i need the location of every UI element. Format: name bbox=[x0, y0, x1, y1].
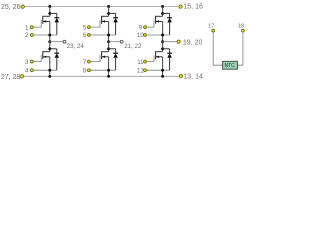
svg-text:27, 28: 27, 28 bbox=[1, 74, 21, 81]
junction: source sense node Q6 bbox=[161, 69, 164, 72]
junction: source sense node Q3 bbox=[107, 34, 110, 37]
svg-text:2: 2 bbox=[25, 32, 29, 39]
svg-text:13, 14: 13, 14 bbox=[183, 73, 203, 80]
junction: source sense node Q1 bbox=[48, 34, 51, 37]
terminal 21, 22 (phase) bbox=[120, 40, 123, 43]
wire: Q2 source down bbox=[49, 57, 51, 77]
wire: phase output column 3 bbox=[163, 41, 178, 43]
junction: top bus column 2 bbox=[107, 5, 110, 8]
terminal 13,14 (DC-) bbox=[179, 74, 182, 77]
transistor Q5 (N-ch MOSFET) bbox=[147, 16, 163, 27]
junction: top bus column 3 bbox=[161, 5, 164, 8]
wire: drain of Q2 from bus bbox=[49, 42, 51, 52]
thermistor NTC bbox=[223, 61, 238, 69]
wire: pin 4 to Q2 source / D2 anode bbox=[33, 69, 56, 71]
svg-text:17: 17 bbox=[208, 24, 214, 30]
junction: top bus column 1 bbox=[48, 5, 51, 8]
wire: Q3 drain to D3 cathode bbox=[109, 12, 116, 14]
wire: Q3 source down bbox=[108, 21, 110, 41]
body diode D1 bbox=[54, 13, 59, 35]
svg-text:11: 11 bbox=[137, 59, 144, 66]
svg-text:NTC: NTC bbox=[224, 63, 235, 69]
body diode D5 bbox=[167, 13, 172, 35]
body diode D6 bbox=[167, 49, 172, 70]
wire: Q1 drain to D1 cathode bbox=[50, 12, 57, 14]
terminal 23, 24 (phase) bbox=[63, 40, 66, 43]
body diode D4 bbox=[113, 49, 118, 70]
wire: phase output column 1 bbox=[50, 41, 63, 43]
junction: source sense node Q5 bbox=[161, 34, 164, 37]
junction: bottom bus column 1 bbox=[48, 75, 51, 78]
transistor Q1 (N-ch MOSFET) bbox=[33, 16, 49, 27]
junction: Q3 drain / diode D3 cathode branch bbox=[107, 12, 110, 15]
junction: source sense node Q2 bbox=[48, 69, 51, 72]
wire: drain of Q6 from bus bbox=[162, 42, 164, 52]
svg-text:18: 18 bbox=[238, 24, 244, 30]
terminal 19, 20 (phase) bbox=[177, 40, 180, 43]
junction: bottom bus column 2 bbox=[107, 75, 110, 78]
svg-text:21, 22: 21, 22 bbox=[124, 43, 142, 50]
wire: drain of Q4 from bus bbox=[108, 42, 110, 52]
junction: Q4 drain / diode D4 cathode branch bbox=[107, 47, 110, 50]
transistor Q4 (N-ch MOSFET) bbox=[91, 51, 109, 61]
wire: DC- bottom bus bbox=[24, 75, 179, 77]
wire: phase output column 2 bbox=[109, 41, 121, 43]
svg-text:1: 1 bbox=[25, 24, 29, 31]
wire: Q1 source down bbox=[49, 21, 51, 41]
wire: drain of Q5 from bus bbox=[162, 7, 164, 17]
svg-text:3: 3 bbox=[25, 59, 29, 66]
svg-text:9: 9 bbox=[139, 24, 143, 31]
svg-text:23, 24: 23, 24 bbox=[67, 43, 85, 50]
junction: Q1 drain / diode D1 cathode branch bbox=[48, 12, 51, 15]
transistor Q2 (N-ch MOSFET) bbox=[33, 51, 49, 61]
wire: pin 6 to Q3 source / D3 anode bbox=[91, 34, 116, 36]
junction: phase node column 3 bbox=[161, 40, 164, 43]
wire: Q6 source down bbox=[162, 57, 164, 77]
junction: Q5 drain / diode D5 cathode branch bbox=[161, 12, 164, 15]
wire: Q4 drain to D4 cathode bbox=[109, 48, 116, 50]
wire: pin 2 to Q1 source / D1 anode bbox=[33, 34, 56, 36]
wire: Q5 source down bbox=[162, 21, 164, 41]
wire: pin 10 to Q5 source / D5 anode bbox=[147, 34, 170, 36]
junction: source sense node Q4 bbox=[107, 69, 110, 72]
transistor Q6 (N-ch MOSFET) bbox=[147, 51, 163, 61]
body diode D3 bbox=[113, 13, 118, 35]
wire: pin 12 to Q6 source / D6 anode bbox=[147, 69, 170, 71]
wire: drain of Q3 from bus bbox=[108, 7, 110, 17]
wire: DC+ top bus bbox=[25, 6, 179, 8]
junction: phase node column 1 bbox=[48, 40, 51, 43]
junction: Q6 drain / diode D6 cathode branch bbox=[161, 47, 164, 50]
svg-text:4: 4 bbox=[25, 67, 29, 74]
wire: pin 8 to Q4 source / D4 anode bbox=[91, 69, 116, 71]
svg-text:25, 26: 25, 26 bbox=[1, 4, 21, 11]
wire: Q2 drain to D2 cathode bbox=[50, 48, 57, 50]
wire: Q5 drain to D5 cathode bbox=[163, 12, 170, 14]
wire: pin 17 to NTC bbox=[213, 32, 222, 65]
svg-text:19, 20: 19, 20 bbox=[183, 39, 203, 46]
junction: bottom bus column 3 bbox=[161, 75, 164, 78]
body diode D2 bbox=[54, 49, 59, 70]
junction: Q2 drain / diode D2 cathode branch bbox=[48, 47, 51, 50]
wire: drain of Q1 from bus bbox=[49, 7, 51, 17]
junction: phase node column 2 bbox=[107, 40, 110, 43]
wire: Q4 source down bbox=[108, 57, 110, 77]
transistor Q3 (N-ch MOSFET) bbox=[91, 16, 109, 27]
svg-text:15, 16: 15, 16 bbox=[183, 4, 203, 11]
terminal 15,16 (DC+) bbox=[179, 5, 182, 8]
wire: Q6 drain to D6 cathode bbox=[163, 48, 170, 50]
wire: pin 18 to NTC bbox=[237, 32, 243, 65]
